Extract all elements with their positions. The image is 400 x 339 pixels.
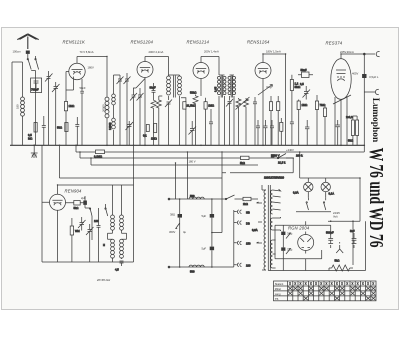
svg-text:0,1MΩ: 0,1MΩ xyxy=(94,155,102,159)
transformer T3 core xyxy=(264,176,284,271)
resistor 5k box osc xyxy=(66,201,85,211)
capacitor C24 xyxy=(209,109,213,145)
oscillator coil L3 xyxy=(108,185,127,239)
capacitor trimmer C6 xyxy=(124,73,131,145)
resistor 0,1M on rail xyxy=(94,150,105,159)
coil L1 antenna xyxy=(21,97,25,116)
resistor 1M grid xyxy=(64,102,74,111)
wire +240V rail xyxy=(76,145,364,152)
capacitor IF trim C9 xyxy=(165,100,172,146)
wire rail extension xyxy=(222,154,293,173)
table tuning chart xyxy=(274,281,377,301)
svg-text:H: H xyxy=(103,243,105,247)
svg-text:0,05: 0,05 xyxy=(214,86,218,92)
capacitor antenna series xyxy=(13,50,30,54)
heater bus wire xyxy=(300,152,360,265)
capacitor tuning C3 xyxy=(52,82,60,145)
capacitor 5uF blob upper xyxy=(202,199,215,247)
svg-text:4μ: 4μ xyxy=(183,230,186,234)
resistor R4 zigzag xyxy=(156,96,162,145)
filter top rail xyxy=(168,152,226,200)
svg-text:2kΩ: 2kΩ xyxy=(243,202,248,206)
switch mains S2 xyxy=(277,154,303,159)
svg-text:30000: 30000 xyxy=(102,104,106,112)
capacitor 3,5u blob B xyxy=(281,247,293,258)
svg-text:100: 100 xyxy=(94,219,99,223)
svg-text:f76: f76 xyxy=(275,297,279,301)
svg-text:5μF: 5μF xyxy=(202,214,207,218)
resistor 52k zigzag xyxy=(190,91,198,146)
svg-text:0,1A: 0,1A xyxy=(329,192,335,196)
svg-text:Skalenl.: Skalenl. xyxy=(275,282,285,286)
resistor 0,5M leak xyxy=(28,123,37,141)
tube V5 RES374 output xyxy=(331,54,376,145)
oscillator block frame xyxy=(42,145,134,262)
capacitor bus C15 xyxy=(270,120,274,145)
transformer secondary HT xyxy=(271,240,276,268)
resistor R3 zigzag xyxy=(151,100,156,145)
capacitor 50nF coupling xyxy=(298,68,313,78)
transformer primary winding xyxy=(252,185,266,270)
svg-text:0,5μF L: 0,5μF L xyxy=(369,75,379,79)
wire heater rail xyxy=(60,145,223,178)
switch wave-change S1a xyxy=(27,54,39,71)
svg-text:5kΩ: 5kΩ xyxy=(240,161,245,165)
svg-text:38Ω: 38Ω xyxy=(170,213,175,217)
svg-text:1,2: 1,2 xyxy=(295,82,299,86)
svg-text:4,5: 4,5 xyxy=(115,268,119,272)
switch osc S4 xyxy=(105,204,108,216)
connector fork 2 xyxy=(364,89,379,94)
tube V4 RENS1264 xyxy=(255,54,286,145)
svg-text:5kΩ: 5kΩ xyxy=(74,206,79,210)
svg-text:180 V: 180 V xyxy=(189,160,196,164)
capacitor osc trimmer C19 xyxy=(78,217,86,231)
resistor 50 cathode xyxy=(57,123,68,132)
resistor Wid box xyxy=(70,218,80,262)
svg-text:RES374: RES374 xyxy=(326,41,343,46)
svg-text:DB: DB xyxy=(246,222,250,226)
svg-text:MΩ: MΩ xyxy=(28,136,32,140)
resistor det zigzag R6 xyxy=(236,98,241,145)
resistor 1,2M box xyxy=(290,75,300,118)
wire rectifier feeds xyxy=(283,221,305,270)
capacitor C16 xyxy=(290,118,294,145)
choke filter bottom xyxy=(189,265,204,273)
capacitor 4uF blob xyxy=(169,199,186,267)
capacitor C4 xyxy=(42,116,46,145)
capacitor trimmer C2 xyxy=(45,71,53,145)
detector coil pair xyxy=(228,75,236,145)
switch lamp S6 xyxy=(306,198,309,210)
power bottom rail xyxy=(268,221,365,270)
capacitor cathode bypass xyxy=(75,117,79,145)
wire AVC rail xyxy=(91,158,258,165)
svg-text:Lumophon: Lumophon xyxy=(371,98,381,143)
svg-text:0,1: 0,1 xyxy=(143,134,147,138)
svg-text:Wid: Wid xyxy=(75,229,80,233)
svg-text:52kΩ: 52kΩ xyxy=(190,91,196,95)
resistor 5k zigzag xyxy=(329,259,353,272)
svg-text:5nF: 5nF xyxy=(350,229,355,233)
svg-text:1MΩ: 1MΩ xyxy=(69,104,75,108)
resistor box 1M xyxy=(151,124,157,141)
svg-text:RENS1214: RENS1214 xyxy=(187,40,210,45)
capacitor 5nF pair xyxy=(350,229,356,248)
resistor box R8 xyxy=(269,96,272,145)
capacitor trimmer C10 xyxy=(189,121,197,145)
svg-text:200V 1,4mA: 200V 1,4mA xyxy=(204,50,219,54)
svg-text:360V: 360V xyxy=(169,230,175,234)
svg-text:220: 220 xyxy=(246,264,251,268)
capacitor padder C7 xyxy=(130,88,137,145)
wire 180V rail xyxy=(80,152,293,158)
svg-text:200V 2,2mA: 200V 2,2mA xyxy=(149,50,164,54)
tube V1 REN5121K xyxy=(66,57,107,146)
IF transformer T2 xyxy=(214,75,227,145)
capacitor trimmer C5 xyxy=(117,75,124,145)
switch osc S3 xyxy=(85,208,92,240)
svg-text:Reg.: Reg. xyxy=(267,85,273,89)
svg-text:80pF: 80pF xyxy=(150,86,156,90)
coil HF choke 30000 xyxy=(105,97,109,118)
wire main ground bus xyxy=(10,144,364,146)
svg-text:Lang: Lang xyxy=(275,292,281,296)
lamp scale 2 xyxy=(321,178,334,198)
resistor det zigzag R7 xyxy=(236,97,250,145)
resistor box R9 xyxy=(277,96,280,145)
svg-text:3,5: 3,5 xyxy=(300,82,304,86)
svg-text:500: 500 xyxy=(190,194,195,198)
svg-text:RENS1264: RENS1264 xyxy=(247,40,270,45)
bandfilter coil L2 xyxy=(108,75,120,145)
tube V2 RENS1204 xyxy=(133,57,169,146)
svg-text:RENS1204: RENS1204 xyxy=(131,40,154,45)
filter bottom rail xyxy=(168,266,234,268)
capacitor C17 xyxy=(305,120,309,145)
svg-text:110/127/150/220: 110/127/150/220 xyxy=(264,176,284,180)
svg-text:HB: HB xyxy=(246,211,250,215)
transformer primary taps xyxy=(257,202,263,243)
capacitor C12 xyxy=(253,97,257,145)
svg-text:+240V: +240V xyxy=(286,148,294,152)
capacitor 2uF blob xyxy=(81,196,87,208)
svg-text:50nF: 50nF xyxy=(80,86,86,90)
resistor 1M box xyxy=(204,98,214,146)
table header marks xyxy=(289,282,374,285)
svg-text:225V,20mA: 225V,20mA xyxy=(340,50,354,54)
svg-text:2x0,1: 2x0,1 xyxy=(346,115,353,119)
svg-text:1MΩ: 1MΩ xyxy=(208,104,214,108)
svg-text:REN904: REN904 xyxy=(65,189,82,194)
svg-text:Volt: Volt xyxy=(333,215,338,219)
svg-text:1MΩ: 1MΩ xyxy=(302,103,308,107)
svg-text:21,5kΩ: 21,5kΩ xyxy=(187,104,196,108)
mains tap column xyxy=(234,210,251,268)
svg-text:50Ω: 50Ω xyxy=(348,139,353,143)
svg-text:500: 500 xyxy=(190,270,195,274)
connector speaker fork top xyxy=(363,51,379,56)
capacitor bus C14 xyxy=(264,120,268,145)
wire lamp return rail xyxy=(296,211,331,213)
tube V6 REN904 xyxy=(42,194,66,262)
oscillator coil L4 xyxy=(103,239,123,262)
transformer secondary heater xyxy=(271,189,281,214)
tube V3 RENS1214 xyxy=(193,57,219,97)
wire feed drop xyxy=(212,152,222,233)
svg-text:10000: 10000 xyxy=(108,122,112,130)
svg-text:180: 180 xyxy=(16,104,20,109)
capacitor osc pad C22 xyxy=(115,261,124,272)
capacitor osc C21 xyxy=(94,208,101,262)
resistor box R13 xyxy=(280,118,283,145)
capacitor 3,5nF tone xyxy=(300,82,310,100)
svg-text:0,3A: 0,3A xyxy=(293,191,299,195)
svg-text:180V: 180V xyxy=(88,66,94,70)
node ground junction xyxy=(33,144,35,146)
ground chassis symbol xyxy=(31,145,38,157)
tube V7 RGN2004 xyxy=(298,232,314,254)
capacitor 700pF block xyxy=(31,78,42,93)
svg-text:700pF: 700pF xyxy=(31,88,39,92)
lamp scale 1 xyxy=(293,178,313,198)
svg-text:100cm: 100cm xyxy=(13,50,22,54)
switch filter S5 xyxy=(225,195,240,200)
capacitor 500pF pair xyxy=(326,231,334,249)
capacitor det C11 xyxy=(226,99,233,145)
svg-text:5kΩ: 5kΩ xyxy=(335,259,340,263)
svg-text:500pF: 500pF xyxy=(326,231,334,235)
transformer secondary mid xyxy=(271,217,281,231)
svg-text:RGN 2004: RGN 2004 xyxy=(288,226,310,231)
svg-text:W 76 und WD 76: W 76 und WD 76 xyxy=(365,148,386,248)
svg-text:60 V: 60 V xyxy=(274,154,280,158)
capacitor C18 xyxy=(336,120,340,145)
svg-text:405V: 405V xyxy=(352,72,358,76)
svg-text:50nF: 50nF xyxy=(301,68,307,72)
capacitor tuning C8 xyxy=(137,88,144,145)
svg-text:Mittel: Mittel xyxy=(275,287,282,291)
resistor 2k box on AVC rail xyxy=(240,156,249,165)
capacitor osc trimmer C20 xyxy=(86,224,94,262)
svg-text:0,6A: 0,6A xyxy=(252,228,258,232)
choke filter top xyxy=(189,194,204,199)
capacitor trimmer C23 xyxy=(126,121,134,145)
svg-text:1MΩ: 1MΩ xyxy=(151,137,157,141)
capacitor bus C13 xyxy=(256,120,260,145)
rectifier box xyxy=(275,225,331,258)
capacitor 5uF blob lower xyxy=(202,247,215,268)
resistor dual box 50 xyxy=(346,115,359,145)
table X marks xyxy=(288,287,375,300)
resistor box R12 xyxy=(323,104,326,145)
capacitor 0,5uF anode xyxy=(362,54,379,152)
svg-text:150: 150 xyxy=(246,242,251,246)
resistor box R10 xyxy=(297,100,307,146)
svg-text:50Ω: 50Ω xyxy=(57,126,62,130)
capacitor 3,5u blob A xyxy=(281,225,293,247)
resistor 2k filter box xyxy=(241,197,259,206)
IF transformer T1 xyxy=(167,75,182,145)
antenna A xyxy=(17,34,38,49)
capacitor 80pF xyxy=(150,83,156,100)
svg-text:24/25: 24/25 xyxy=(333,211,340,215)
svg-text:7MΩ: 7MΩ xyxy=(320,103,326,107)
wire antenna feed xyxy=(12,62,36,145)
switch lamp S7 xyxy=(323,198,326,210)
resistor 21,5k box xyxy=(181,98,195,146)
svg-text:70 V 5,8mA: 70 V 5,8mA xyxy=(80,50,94,54)
earth fork symbol xyxy=(336,242,343,253)
svg-text:21,5 k: 21,5 k xyxy=(278,161,286,165)
svg-text:5μF: 5μF xyxy=(202,247,207,251)
resistor box 0,1M xyxy=(143,125,149,138)
resistor box R11 xyxy=(315,95,325,145)
svg-text:REN5121K: REN5121K xyxy=(63,40,86,45)
svg-text:180V 1,5mA: 180V 1,5mA xyxy=(266,50,281,54)
svg-text:ZF=65 kHz: ZF=65 kHz xyxy=(96,278,111,282)
